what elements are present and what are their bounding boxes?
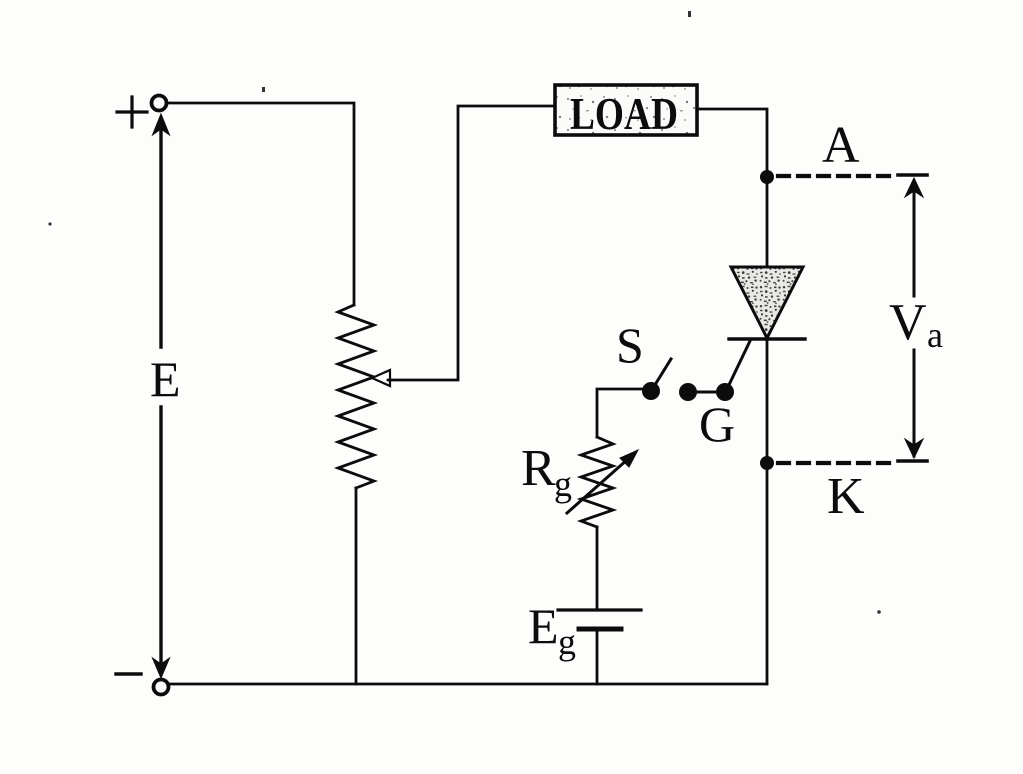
switch S contact dot xyxy=(642,382,660,400)
svg-text:V: V xyxy=(889,294,927,351)
Rg variable arrow xyxy=(567,450,638,513)
plus sign label xyxy=(117,97,147,127)
wire: LOAD to SCR anode line xyxy=(699,109,767,268)
SCR cathode bar xyxy=(729,337,805,340)
svg-text:G: G xyxy=(699,396,735,452)
svg-text:A: A xyxy=(822,117,860,174)
stray scan marks xyxy=(48,222,51,225)
wire: potentiometer bottom to bottom bus xyxy=(355,488,358,684)
wire: battery to bottom bus xyxy=(596,631,599,684)
svg-text:E: E xyxy=(150,351,181,407)
potentiometer R (zigzag) xyxy=(338,305,374,488)
SCR U1 (thyristor triangle, stippled) xyxy=(731,267,803,338)
svg-text:a: a xyxy=(927,315,943,355)
wire: switch to Rg xyxy=(597,389,650,437)
Va measurement arrow xyxy=(898,175,927,461)
terminal - (open circle, bottom-left) xyxy=(154,680,169,695)
SCR cathode line down to bus xyxy=(766,339,769,684)
svg-text:g: g xyxy=(554,464,572,504)
svg-text:E: E xyxy=(528,598,559,654)
svg-text:K: K xyxy=(827,468,865,525)
node A (junction dot) xyxy=(760,170,774,184)
battery Eg positive plate xyxy=(558,608,641,611)
svg-text:g: g xyxy=(558,622,576,662)
wire: + terminal to potentiometer top xyxy=(167,103,354,305)
dashed lead from K to Va arrow xyxy=(778,461,898,465)
gate terminal dot xyxy=(716,383,734,401)
minus sign label xyxy=(116,672,141,675)
switch S lever xyxy=(653,359,671,388)
wire: Rg to battery xyxy=(596,527,599,609)
source E arrow (double-headed vertical arrow) xyxy=(153,114,170,678)
gate wire dot xyxy=(679,383,697,401)
resistor Rg (zigzag) xyxy=(581,437,613,527)
node K (junction dot) xyxy=(760,456,774,470)
svg-text:R: R xyxy=(521,440,556,497)
potentiometer wiper arrow xyxy=(372,370,390,386)
svg-text:LOAD: LOAD xyxy=(570,89,678,139)
svg-text:S: S xyxy=(616,317,644,373)
gate lead from SCR xyxy=(727,341,750,389)
battery Eg negative plate xyxy=(579,627,621,632)
dashed lead from A to Va arrow xyxy=(778,174,898,178)
terminal + (open circle, top-left) xyxy=(152,96,167,111)
wire: wiper to LOAD xyxy=(388,106,554,380)
LOAD box xyxy=(555,85,697,135)
bottom bus wire xyxy=(168,683,767,686)
wire between gate dots xyxy=(688,391,725,394)
